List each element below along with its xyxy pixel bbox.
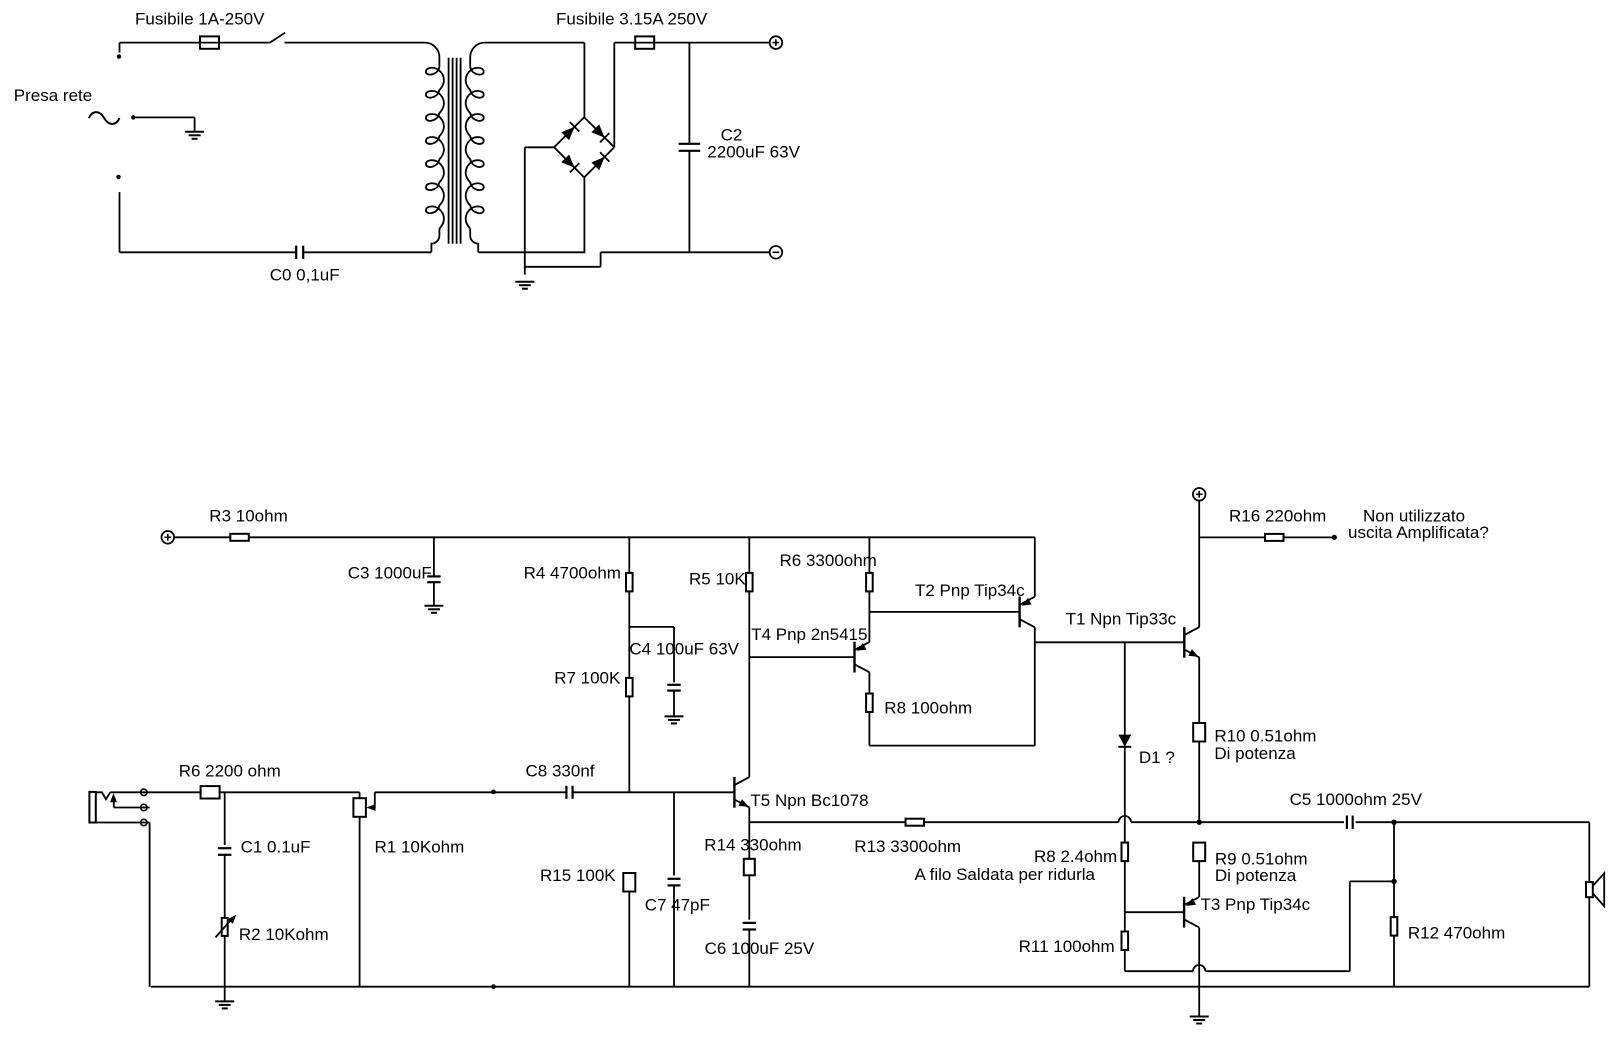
- svg-text:R14 330ohm: R14 330ohm: [704, 836, 801, 855]
- label C8 330nf: [526, 762, 595, 781]
- wire R10 to rail: [1198, 742, 1200, 823]
- capacitor C8: [566, 786, 572, 799]
- transistor T4 Pnp 2n5415: [855, 642, 870, 673]
- wire R1 down: [359, 817, 361, 987]
- resistor R15 100K: [623, 873, 635, 892]
- svg-text:T5 Npn Bc1078: T5 Npn Bc1078: [750, 791, 868, 810]
- node mains L terminal: [117, 54, 121, 58]
- wire C4 to ground: [673, 691, 675, 717]
- label R11 100ohm: [1019, 937, 1115, 956]
- svg-text:R10 0.51ohm: R10 0.51ohm: [1214, 727, 1316, 746]
- wire R4 to R7: [628, 591, 630, 678]
- label C0 0,1uF: [270, 265, 340, 284]
- capacitor C2: [679, 144, 701, 151]
- ground T3: [1190, 1017, 1209, 1024]
- resistor R13 3300ohm: [906, 819, 925, 826]
- wire R6 to R1: [220, 791, 360, 793]
- svg-text:Fusibile 1A-250V: Fusibile 1A-250V: [135, 10, 265, 29]
- wire R12 to rail: [1393, 936, 1395, 987]
- label Presa rete: [14, 86, 92, 105]
- wire T5 emitter down: [748, 808, 750, 859]
- svg-text:Fusibile 3.15A 250V: Fusibile 3.15A 250V: [556, 10, 708, 29]
- transistor T5 Npn Bc1078: [734, 777, 749, 808]
- svg-text:C5 1000ohm 25V: C5 1000ohm 25V: [1290, 790, 1423, 809]
- svg-text:R5 10K: R5 10K: [689, 570, 746, 589]
- AC source symbol: [89, 112, 120, 124]
- label R10 0.51ohm: [1214, 727, 1316, 746]
- diode bridge outline: [554, 117, 614, 177]
- node mains E terminal: [116, 175, 120, 179]
- capacitor C7: [668, 879, 681, 886]
- wire top L: [120, 42, 201, 44]
- wire tip to R6: [110, 791, 200, 793]
- wire plus down: [1198, 501, 1200, 627]
- transistor T1 Npn Tip33c: [1184, 627, 1199, 658]
- label R15 100K: [540, 866, 616, 885]
- resistor R12 470ohm: [1391, 917, 1398, 936]
- ground bridge: [515, 282, 534, 289]
- diode D1: [1118, 735, 1131, 747]
- label R2 10Kohm: [239, 925, 329, 944]
- label D1 ?: [1139, 748, 1175, 767]
- wire C5 to speaker node: [1356, 821, 1590, 823]
- resistor R6 2200 ohm: [201, 786, 220, 798]
- ground mains earth: [185, 132, 204, 139]
- svg-text:R6 2200 ohm: R6 2200 ohm: [179, 762, 281, 781]
- svg-text:R15 100K: R15 100K: [540, 866, 616, 885]
- label R4 4700ohm: [524, 564, 621, 583]
- wire box bottom: [869, 745, 1034, 747]
- wire to R12 node: [1350, 880, 1394, 882]
- wire T1 base wire: [1035, 641, 1185, 643]
- label C4 100uF 63V: [629, 639, 739, 658]
- wire T1 emitter down: [1198, 657, 1200, 723]
- label R1 10Kohm: [375, 838, 465, 857]
- resistor R3: [230, 534, 249, 541]
- label R6 2200 ohm: [179, 762, 281, 781]
- label Fusibile 1A-250V: [135, 10, 265, 29]
- svg-text:R12 470ohm: R12 470ohm: [1408, 924, 1505, 943]
- wire N to earth: [133, 117, 194, 131]
- speaker LS1: [1586, 873, 1604, 906]
- R1 wiper arrow: [367, 792, 376, 811]
- wire C4 branch: [629, 627, 674, 682]
- svg-text:R8 100ohm: R8 100ohm: [884, 699, 972, 718]
- svg-text:R4 4700ohm: R4 4700ohm: [524, 564, 621, 583]
- wire R1 wiper to C8: [375, 791, 567, 793]
- wire T4 collector down: [868, 672, 870, 693]
- wire bottom rail: [151, 986, 1590, 988]
- wire bridge right up: [614, 43, 635, 148]
- svg-text:C0 0,1uF: C0 0,1uF: [270, 265, 340, 284]
- wire hop over D1 column: [1119, 816, 1131, 822]
- svg-text:R16 220ohm: R16 220ohm: [1229, 506, 1326, 525]
- svg-text:C7 47pF: C7 47pF: [645, 895, 710, 914]
- wire C7 to rail: [673, 885, 675, 986]
- wire D1 to hop area: [1124, 747, 1126, 842]
- label T2 Pnp Tip34c: [915, 581, 1025, 600]
- transformer TR1 secondary bottom lead: [470, 229, 478, 253]
- svg-text:T3 Pnp Tip34c: T3 Pnp Tip34c: [1201, 895, 1311, 914]
- wire secondary bottom rail: [478, 251, 585, 253]
- capacitor C6: [743, 923, 756, 930]
- wire C0 to transformer: [303, 251, 431, 253]
- label R7 100K: [554, 669, 621, 688]
- label R9 Di potenza: [1215, 866, 1297, 885]
- resistor R4: [626, 573, 633, 592]
- resistor R5: [746, 573, 753, 592]
- svg-text:R6 3300ohm: R6 3300ohm: [780, 551, 877, 570]
- resistor R16: [1265, 534, 1284, 541]
- label Non utilizzato: [1363, 506, 1465, 525]
- jack middle wire: [114, 807, 150, 809]
- wire T2 base wire: [869, 611, 1019, 613]
- label Fusibile 3.15A 250V: [556, 10, 708, 29]
- label R3 10ohm: [209, 506, 287, 525]
- wire C3 column: [433, 537, 435, 606]
- resistor R7: [626, 678, 633, 697]
- label C5 1000ohm 25V: [1290, 790, 1423, 809]
- wire R2 to rail: [224, 936, 226, 987]
- capacitor C3: [427, 576, 440, 582]
- wire C8 to T5 base: [573, 791, 735, 793]
- label R13 3300ohm: [854, 837, 961, 856]
- svg-text:C3 1000uF: C3 1000uF: [348, 564, 432, 583]
- resistor R14 330ohm: [744, 859, 755, 876]
- svg-text:Di potenza: Di potenza: [1215, 866, 1297, 885]
- terminal plus amp left: [162, 531, 175, 544]
- R2 wiper arrow: [216, 915, 237, 938]
- label R10 Di potenza: [1214, 744, 1296, 763]
- svg-text:R3 10ohm: R3 10ohm: [209, 506, 287, 525]
- wire R16 branch: [1199, 536, 1265, 538]
- jack sleeve wire: [96, 823, 150, 987]
- wire T3 collector down: [1198, 927, 1200, 1016]
- wire E down: [119, 192, 121, 252]
- resistor R2 10Kohm pot: [222, 918, 228, 936]
- capacitor C5: [1347, 816, 1353, 829]
- node R12 top junction: [1391, 879, 1396, 884]
- wire R5 column top: [748, 537, 750, 573]
- wire T2 emitter up: [1034, 537, 1036, 597]
- wire C1 column: [224, 792, 226, 845]
- svg-text:C8 330nf: C8 330nf: [526, 762, 595, 781]
- wire C1 to R2: [224, 855, 226, 918]
- wire R1 top entry: [359, 792, 361, 798]
- svg-text:uscita Amplificata?: uscita Amplificata?: [1348, 523, 1489, 542]
- label T3 Pnp Tip34c: [1201, 895, 1311, 914]
- wire T3 base wire: [1125, 911, 1184, 913]
- label C7 47pF: [645, 895, 710, 914]
- label A filo Saldata per ridurla: [915, 865, 1096, 884]
- ground C4: [665, 716, 684, 723]
- wire T2 collector column: [1034, 627, 1036, 746]
- svg-text:D1 ?: D1 ?: [1139, 748, 1175, 767]
- jack contact circle middle: [141, 804, 147, 810]
- wire fuse2 to plus: [654, 42, 769, 44]
- wire C7 column: [673, 792, 675, 875]
- resistor R8 2.4ohm: [1122, 843, 1129, 862]
- wire R4 column top: [628, 537, 630, 573]
- label R12 470ohm: [1408, 924, 1505, 943]
- diode bridge D-topleft: [561, 122, 579, 140]
- fuse F1 Fusibile 1A-250V: [200, 36, 219, 48]
- wire R11 bottom run: [1125, 970, 1350, 972]
- svg-text:C4 100uF 63V: C4 100uF 63V: [629, 639, 739, 658]
- diode bridge D-bottomright: [591, 152, 609, 170]
- wire bridge bottom down: [583, 176, 585, 252]
- label T4 Pnp 2n5415: [751, 625, 867, 644]
- transformer TR1 secondary top lead: [470, 43, 485, 67]
- label R8 100ohm: [884, 699, 972, 718]
- ground R2: [215, 1001, 234, 1008]
- wire R8 to T3 base junction: [1124, 861, 1126, 912]
- wire R5 to T5 collector: [748, 591, 750, 777]
- jack J1 tip contact: [96, 792, 110, 799]
- resistor R8 100ohm: [866, 694, 873, 713]
- label R6 3300ohm: [780, 551, 877, 570]
- wire R8 to box bottom: [868, 712, 870, 746]
- svg-text:T1 Npn Tip33c: T1 Npn Tip33c: [1066, 609, 1177, 628]
- wire R6 to T junction: [868, 591, 870, 612]
- capacitor C0: [296, 246, 303, 259]
- transistor T3 Pnp Tip34c: [1184, 897, 1199, 928]
- label uscita Amplificata?: [1348, 523, 1489, 542]
- wire minus step: [525, 252, 601, 266]
- wire switch to transformer: [285, 42, 425, 44]
- resistor R6 3300: [866, 573, 873, 592]
- wire hop over T3 collector: [1193, 965, 1205, 971]
- label C2: [721, 126, 743, 145]
- resistor R9: [1193, 843, 1205, 862]
- jack switch arrow: [110, 793, 117, 807]
- wire R2 ground stem: [224, 987, 226, 1002]
- wire up to C5 junction: [1349, 881, 1351, 971]
- wire R7 to base rail: [628, 696, 630, 792]
- node output unused: [1332, 535, 1337, 540]
- svg-text:R7 100K: R7 100K: [554, 669, 621, 688]
- diode bridge D-topright: [591, 124, 609, 142]
- label C3 1000uF: [348, 564, 432, 583]
- wire speaker column top: [1588, 822, 1590, 882]
- label T1 Npn Tip33c: [1066, 609, 1177, 628]
- transformer TR1 secondary winding: [466, 67, 484, 229]
- wire T4 base: [749, 656, 854, 658]
- svg-text:Presa rete: Presa rete: [14, 86, 92, 105]
- label R9 0.51ohm: [1215, 850, 1308, 869]
- jack J1 body: [89, 792, 95, 823]
- wire T5 emitter rail: [749, 821, 905, 823]
- wire bridge left to ground: [525, 147, 554, 274]
- switch S1 blade: [270, 33, 285, 43]
- capacitor C1: [218, 848, 231, 855]
- label R5 10K: [689, 570, 746, 589]
- wire plus to R3: [174, 536, 230, 538]
- terminal plus top: [770, 36, 783, 49]
- transformer TR1 primary bottom lead: [431, 229, 439, 253]
- wire R9 to T3 emitter: [1198, 861, 1200, 897]
- label R16 220ohm: [1229, 506, 1326, 525]
- wire C6 to rail: [748, 930, 750, 987]
- wire mains L stub: [119, 43, 121, 53]
- wire R15 to rail: [628, 892, 630, 987]
- wire minus rail: [601, 251, 770, 253]
- svg-text:2200uF 63V: 2200uF 63V: [707, 142, 800, 161]
- svg-text:R11 100ohm: R11 100ohm: [1019, 937, 1115, 956]
- label R8 2.4ohm: [1034, 847, 1117, 866]
- svg-text:C1 0.1uF: C1 0.1uF: [241, 838, 311, 857]
- svg-text:A filo Saldata per ridurla: A filo Saldata per ridurla: [915, 865, 1096, 884]
- terminal plus amp right: [1193, 488, 1206, 501]
- node R9 junction: [1197, 820, 1202, 825]
- svg-text:R2 10Kohm: R2 10Kohm: [239, 925, 329, 944]
- jack contact circle bottom: [141, 819, 147, 825]
- svg-text:R1 10Kohm: R1 10Kohm: [375, 838, 465, 857]
- jack contact circle top: [141, 789, 147, 795]
- capacitor C4: [667, 685, 680, 691]
- svg-text:R8 2.4ohm: R8 2.4ohm: [1034, 847, 1117, 866]
- label C1 0.1uF: [241, 838, 311, 857]
- label C2 value: [707, 142, 800, 161]
- terminal minus top: [770, 246, 783, 259]
- transformer TR1 core: [449, 58, 461, 244]
- label T5 Npn Bc1078: [750, 791, 868, 810]
- node C8 junction dot: [491, 790, 496, 795]
- wire R16 to dot: [1284, 536, 1335, 538]
- node mains N terminal: [131, 115, 135, 119]
- svg-text:Di potenza: Di potenza: [1214, 744, 1296, 763]
- wire R6 column top: [868, 537, 870, 573]
- wire R12 column: [1393, 822, 1395, 917]
- wire C2 column: [688, 43, 690, 253]
- wire to C5: [1199, 821, 1344, 823]
- svg-text:C6 100uF 25V: C6 100uF 25V: [705, 939, 815, 958]
- resistor R10: [1193, 723, 1205, 742]
- transistor T2 Pnp Tip34c: [1020, 597, 1035, 628]
- wire D1 column top: [1124, 642, 1126, 734]
- svg-text:R13 3300ohm: R13 3300ohm: [854, 837, 961, 856]
- wire speaker column bottom: [1588, 897, 1590, 987]
- resistor R11 100ohm: [1122, 932, 1129, 951]
- resistor R1 10Kohm pot: [353, 798, 366, 817]
- wire R11 to bottom corner: [1124, 950, 1126, 971]
- wire bottom left: [120, 251, 297, 253]
- diode bridge D-bottomleft: [561, 155, 579, 173]
- node bottom rail dot: [491, 984, 496, 989]
- node C5 out: [1391, 820, 1396, 825]
- ground C3: [424, 606, 443, 613]
- label R14 330ohm: [704, 836, 801, 855]
- transformer TR1 primary top lead: [425, 43, 440, 67]
- label C6 100uF 25V: [705, 939, 815, 958]
- wire R11 column: [1124, 912, 1126, 931]
- wire hop to R9 junction: [1131, 821, 1199, 823]
- wire top rail: [249, 536, 1035, 538]
- svg-text:T4 Pnp 2n5415: T4 Pnp 2n5415: [751, 625, 867, 644]
- svg-text:T2 Pnp Tip34c: T2 Pnp Tip34c: [915, 581, 1025, 600]
- wire secondary top to bridge: [485, 43, 585, 119]
- wire T4 emitter column: [868, 612, 870, 642]
- transformer TR1 primary winding: [426, 67, 444, 229]
- wire R14 to C6: [748, 875, 750, 919]
- wire to switch: [219, 42, 270, 44]
- wire R13 to hop: [924, 821, 1118, 823]
- fuse F2 Fusibile 3.15A 250V: [635, 36, 654, 48]
